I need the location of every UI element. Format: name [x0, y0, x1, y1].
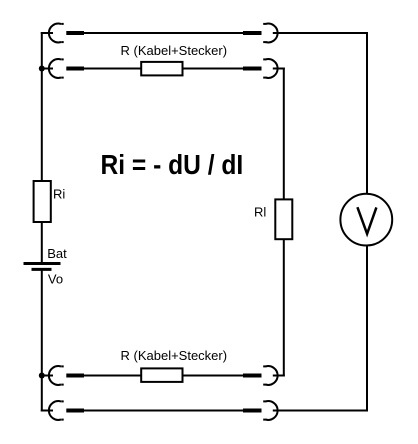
- connector plug P5 (row C left): [66, 374, 84, 378]
- svg-text:Vo: Vo: [48, 271, 63, 286]
- wire: row B from plug to resistor: [84, 68, 142, 70]
- svg-text:Bat: Bat: [47, 246, 67, 261]
- svg-text:R (Kabel+Stecker): R (Kabel+Stecker): [121, 348, 228, 363]
- wire: outer right vertical from row A corner to voltmeter: [366, 32, 368, 194]
- wire: row D left stub: [41, 410, 53, 412]
- svg-text:Ri = - dU / dI: Ri = - dU / dI: [101, 149, 244, 180]
- wire: row C left stub: [41, 375, 53, 377]
- resistor Ri: [34, 181, 51, 222]
- wire: row C from plug to resistor: [84, 375, 142, 377]
- resistor R (Kabel+Stecker) top: [141, 62, 182, 76]
- resistor Rl: [275, 199, 292, 239]
- connector plug P3 (row B left): [66, 67, 84, 71]
- wire: row D middle: [84, 410, 243, 412]
- wire: row B left stub: [41, 68, 53, 70]
- junction dot on left bus at row C: [39, 373, 45, 379]
- wire: left vertical from battery bottom plate to bottom row: [41, 269, 43, 412]
- voltmeter V: [340, 194, 392, 246]
- connector socket J5 (row C left): [49, 366, 64, 385]
- wire: row B from resistor to plug: [182, 68, 243, 70]
- svg-text:Ri: Ri: [53, 187, 65, 202]
- resistor R (Kabel+Stecker) bottom: [141, 368, 182, 382]
- wire: row D right segment to outer corner: [273, 410, 368, 412]
- connector plug P4 (row B right): [243, 67, 262, 71]
- connector socket J1 (row A left): [49, 24, 64, 43]
- wire: inner right vertical from row B corner to Rl: [283, 68, 285, 201]
- wire: row A right segment to outer corner: [273, 32, 368, 34]
- connector socket J8 (row D right): [263, 401, 277, 420]
- connector plug P7 (row D left): [66, 409, 84, 413]
- connector socket J3 (row B left): [49, 59, 64, 78]
- wire: row A middle: [84, 32, 243, 34]
- wire: left vertical between Ri and battery top plate: [41, 222, 43, 264]
- battery Bat plate 1 (long): [24, 262, 61, 265]
- connector socket J6 (row C right): [263, 366, 277, 385]
- svg-text:R (Kabel+Stecker): R (Kabel+Stecker): [121, 43, 228, 58]
- connector socket J7 (row D left): [49, 401, 64, 420]
- connector socket J2 (row A right): [263, 24, 277, 43]
- battery Bat plate 2 (short): [32, 268, 52, 271]
- junction dot on left bus at row B: [39, 66, 45, 72]
- wire: row C right segment to inner corner: [273, 375, 285, 377]
- wire: outer right vertical from voltmeter to row D corner: [366, 245, 368, 411]
- wire: left vertical bus from top row to Ri: [41, 32, 43, 181]
- connector socket J4 (row B right): [263, 59, 277, 78]
- wire: row C from resistor to plug: [182, 375, 243, 377]
- connector plug P8 (row D right): [243, 409, 262, 413]
- connector plug P6 (row C right): [243, 374, 262, 378]
- svg-text:Rl: Rl: [254, 205, 266, 220]
- wire: row B right segment to inner corner: [273, 68, 285, 70]
- connector plug P1 (row A left): [66, 31, 84, 35]
- wire: inner right vertical from Rl to row C corner: [283, 240, 285, 377]
- connector plug P2 (row A right): [243, 31, 262, 35]
- wire: row A left stub: [41, 32, 53, 34]
